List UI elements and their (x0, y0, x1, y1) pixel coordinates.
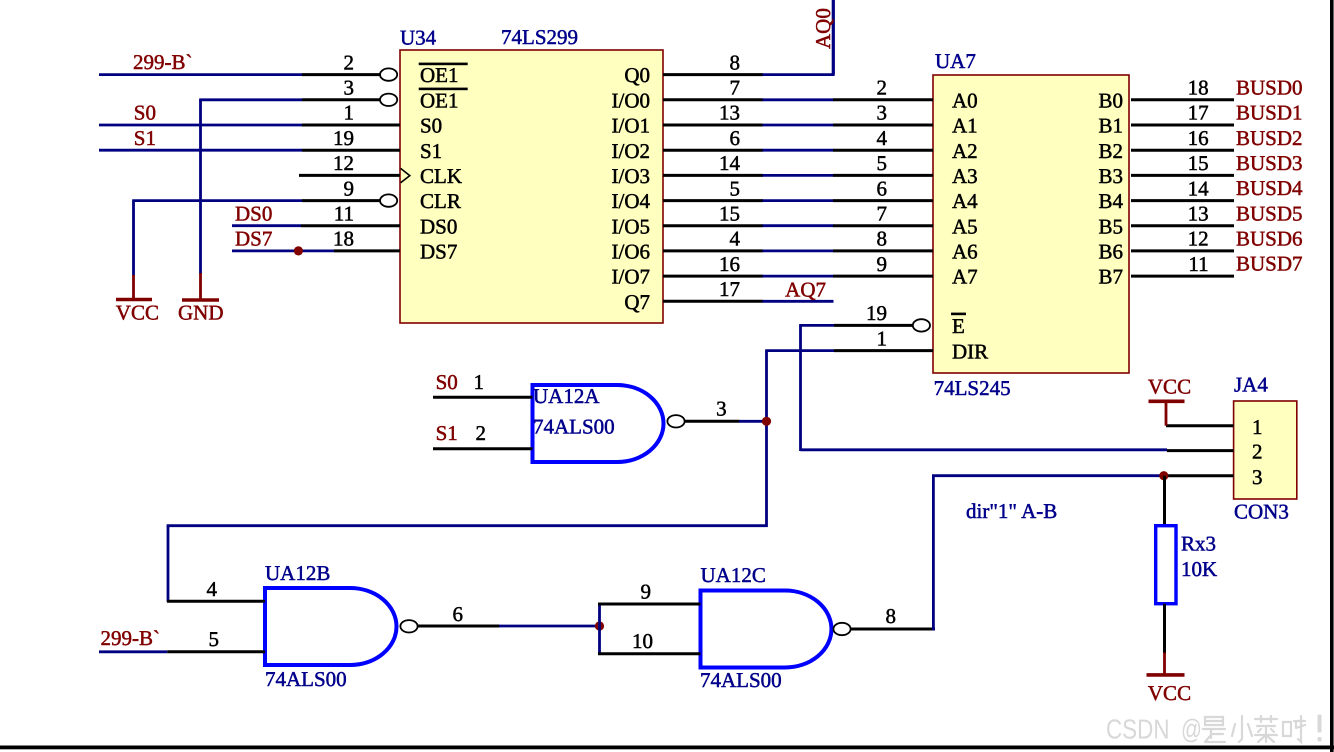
UA7 right pin stub B7 (1131, 275, 1234, 278)
junction dot JA4 pin3 / Rx3 (1159, 471, 1168, 480)
svg-text:UA12B: UA12B (265, 561, 330, 585)
svg-text:3: 3 (1252, 465, 1263, 489)
UA7 left pin stub A5 (833, 224, 933, 227)
svg-text:B2: B2 (1098, 139, 1123, 163)
svg-text:I/O3: I/O3 (612, 164, 651, 188)
svg-text:DS0: DS0 (420, 214, 457, 238)
svg-text:11: 11 (334, 201, 354, 225)
wire U34 to UA7 row 7 (763, 224, 834, 227)
IC UA7 74LS245 body (933, 75, 1129, 373)
svg-text:B4: B4 (1098, 189, 1123, 213)
UA7 right pin stub B3 (1131, 174, 1234, 177)
svg-text:7: 7 (877, 201, 888, 225)
U34 right pin stub row 2 (663, 98, 763, 101)
svg-text:I/O1: I/O1 (612, 114, 651, 138)
svg-text:2: 2 (877, 76, 888, 100)
svg-text:UA7: UA7 (935, 49, 976, 73)
svg-text:19: 19 (333, 126, 354, 150)
svg-text:B5: B5 (1098, 214, 1123, 238)
svg-text:I/O4: I/O4 (612, 189, 651, 213)
vertical wire E net down (799, 325, 802, 451)
UA7 right pin stub B0 (1131, 98, 1234, 101)
svg-text:S0: S0 (436, 370, 458, 394)
svg-text:S1: S1 (436, 421, 458, 445)
UA12B input pin 5 stub (167, 650, 265, 653)
svg-text:GND: GND (178, 301, 224, 325)
svg-text:I/O0: I/O0 (612, 88, 651, 112)
svg-text:5: 5 (730, 176, 741, 200)
svg-text:74LS245: 74LS245 (934, 376, 1011, 400)
svg-text:19: 19 (866, 301, 887, 325)
junction dot UA12A output / DIR net (762, 417, 771, 426)
UA7 left pin stub A2 (833, 149, 933, 152)
svg-text:BUSD2: BUSD2 (1236, 126, 1303, 150)
svg-text:B6: B6 (1098, 240, 1123, 264)
pin 11 stub (DS0) (301, 224, 400, 227)
UA12C output bubble (833, 623, 850, 635)
pin 3 stub (302, 98, 380, 101)
watermark fullwidth exclamation (1318, 715, 1322, 742)
wire junction down to Rx3 (1163, 476, 1166, 526)
U34 right pin stub row 5 (663, 174, 763, 177)
svg-text:1: 1 (1252, 415, 1263, 439)
vertical wire net AQ0 (832, 0, 835, 75)
NAND gate UA12C outline (701, 591, 832, 668)
wire net S1 (99, 149, 302, 152)
connector JA4 body (1234, 401, 1297, 499)
svg-text:A6: A6 (952, 240, 978, 264)
svg-text:14: 14 (1188, 176, 1210, 200)
wire pin6 to UA12C junction (499, 625, 600, 628)
svg-text:AQ0: AQ0 (811, 8, 835, 49)
svg-text:A3: A3 (952, 164, 978, 188)
UA7 left pin stub A1 (833, 124, 933, 127)
svg-text:BUSD6: BUSD6 (1236, 227, 1303, 251)
svg-text:S0: S0 (420, 114, 442, 138)
svg-text:I/O7: I/O7 (612, 265, 651, 289)
svg-text:BUSD5: BUSD5 (1236, 201, 1303, 225)
sheet border right edge (1330, 0, 1334, 752)
wire U34 to UA7 row 9 (763, 275, 834, 278)
sheet border bottom edge (0, 746, 1334, 750)
svg-text:OE1: OE1 (420, 88, 459, 112)
svg-text:74ALS00: 74ALS00 (265, 667, 347, 691)
vertical wire UA12C output up (932, 476, 935, 631)
svg-text:I/O6: I/O6 (612, 240, 651, 264)
svg-text:8: 8 (730, 50, 741, 74)
wire U34 to UA7 row 5 (763, 174, 834, 177)
svg-text:BUSD3: BUSD3 (1236, 151, 1303, 175)
svg-text:74LS299: 74LS299 (501, 25, 578, 49)
svg-text:UA12A: UA12A (533, 384, 600, 408)
watermark CSDN text (1106, 713, 1202, 744)
svg-text:Rx3: Rx3 (1181, 531, 1216, 555)
svg-text:OE1: OE1 (420, 63, 459, 87)
svg-text:16: 16 (1188, 126, 1209, 150)
svg-text:2: 2 (1252, 440, 1263, 464)
resistor Rx3 body (1156, 526, 1176, 604)
U34 right pin stub row 10 (663, 300, 763, 303)
power symbol VCC (left) (116, 275, 152, 300)
svg-text:CSDN: CSDN (1106, 713, 1170, 744)
watermark CJK glyph strokes (1203, 716, 1305, 742)
wire pin3 down to GND symbol (199, 100, 202, 274)
JA4 pin 1 stub (1166, 424, 1234, 427)
svg-text:Q7: Q7 (624, 290, 650, 314)
wire U34 to UA7 row 6 (763, 199, 834, 202)
UA7 E pin overline (951, 313, 966, 316)
svg-text:74ALS00: 74ALS00 (533, 415, 615, 439)
pin 9 inversion bubble (380, 194, 397, 206)
UA12A output pin 3 stub (685, 420, 740, 423)
svg-text:4: 4 (207, 577, 218, 601)
pin 18 stub (DS7) (334, 249, 400, 252)
svg-text:dir"1" A-B: dir"1" A-B (966, 499, 1057, 523)
U34 right pin stub row 3 (663, 124, 763, 127)
svg-text:5: 5 (877, 151, 888, 175)
wire pin3 to GND vertical (199, 98, 302, 101)
vertical wire DIR net down through gate junction (765, 351, 768, 527)
svg-text:CLK: CLK (420, 164, 462, 188)
wire UA12A output to junction (739, 420, 767, 423)
svg-text:4: 4 (730, 227, 741, 251)
junction dot pin6 net (595, 621, 604, 630)
svg-text:15: 15 (719, 201, 740, 225)
svg-text:9: 9 (877, 252, 888, 276)
UA7 left pin stub A0 (833, 98, 933, 101)
svg-text:9: 9 (641, 579, 652, 603)
svg-text:12: 12 (1188, 227, 1209, 251)
svg-text:A5: A5 (952, 214, 978, 238)
pin 19 stub (S1) (302, 149, 400, 152)
svg-text:13: 13 (719, 101, 740, 125)
pin 19 stub (E) (834, 324, 913, 327)
svg-text:299-B`: 299-B` (101, 626, 161, 650)
wire net DS0 (232, 224, 301, 227)
svg-text:S1: S1 (420, 139, 442, 163)
wire CLR to VCC vertical (132, 199, 302, 202)
svg-text:B1: B1 (1098, 114, 1123, 138)
U34 right pin stub row 4 (663, 149, 763, 152)
pin 3 inversion bubble (380, 94, 397, 106)
svg-text:4: 4 (877, 126, 888, 150)
svg-text:B7: B7 (1098, 265, 1123, 289)
UA7 left pin stub A7 (833, 275, 933, 278)
wire net 299-B to pin 5 (99, 650, 167, 653)
wire net 299-B row1 (99, 73, 302, 76)
U34 right pin stub row 1 (663, 73, 763, 76)
svg-text:A4: A4 (952, 189, 978, 213)
svg-text:6: 6 (877, 176, 888, 200)
wire E net to JA4 pin2 (801, 448, 1168, 451)
UA7 left pin stub A6 (833, 249, 933, 252)
UA7 right pin stub B1 (1131, 124, 1234, 127)
wire U34 to UA7 row 4 (763, 149, 834, 152)
UA7 right pin stub B2 (1131, 149, 1234, 152)
svg-text:1: 1 (877, 327, 888, 351)
NAND gate UA12A outline (533, 385, 664, 462)
pin 12 stub (CLK) (299, 174, 400, 177)
wire Rx3 down to VCC (1163, 604, 1166, 654)
long horizontal wire to UA12B pin4 (167, 524, 768, 527)
pin 19 inversion bubble (913, 319, 930, 331)
svg-text:CON3: CON3 (1234, 499, 1289, 523)
vertical wire down to UA12B pin4 (167, 526, 170, 602)
svg-text:JA4: JA4 (1234, 373, 1268, 397)
U34 right pin stub row 8 (663, 249, 763, 252)
wire E to vertical (799, 324, 834, 327)
UA12C input pin 10 stub (598, 652, 701, 655)
pin 2 stub (302, 73, 380, 76)
svg-text:3: 3 (716, 397, 727, 421)
svg-text:18: 18 (333, 227, 354, 251)
svg-text:9: 9 (344, 176, 355, 200)
svg-text:14: 14 (719, 151, 741, 175)
svg-text:8: 8 (877, 227, 888, 251)
UA12C output pin 8 stub (851, 628, 935, 631)
svg-text:6: 6 (453, 602, 464, 626)
UA12A output bubble (667, 415, 684, 427)
UA12B output bubble (400, 620, 417, 632)
svg-text:7: 7 (730, 76, 741, 100)
svg-text:@: @ (1181, 713, 1202, 744)
svg-text:E: E (952, 314, 965, 338)
svg-text:BUSD4: BUSD4 (1236, 176, 1303, 200)
svg-text:3: 3 (344, 76, 355, 100)
svg-text:AQ7: AQ7 (785, 277, 826, 301)
wire net S0 (99, 124, 302, 127)
junction dot on DS7 wire (294, 246, 303, 255)
UA7 left pin stub A3 (833, 174, 933, 177)
svg-text:DIR: DIR (952, 340, 988, 364)
pin 1 stub (DIR) (834, 349, 933, 352)
svg-text:A7: A7 (952, 265, 978, 289)
NAND gate UA12B outline (265, 588, 397, 665)
wire U34 to UA7 row 2 (763, 98, 834, 101)
U34 CLK triangle marker (401, 168, 410, 182)
svg-text:16: 16 (719, 252, 740, 276)
svg-text:Q0: Q0 (624, 63, 650, 87)
JA4 pin 3 stub (1164, 474, 1234, 477)
svg-text:A1: A1 (952, 114, 978, 138)
svg-text:10: 10 (632, 629, 653, 653)
wire to JA4 pin3 junction (932, 474, 1164, 477)
wire Q7 net AQ7 (763, 300, 834, 303)
svg-text:A2: A2 (952, 139, 978, 163)
svg-text:I/O5: I/O5 (612, 214, 651, 238)
power symbol GND (182, 273, 219, 300)
UA12B input pin 4 stub (167, 600, 265, 603)
JA4 pin 2 stub (1167, 449, 1234, 452)
svg-text:12: 12 (333, 151, 354, 175)
svg-text:DS7: DS7 (235, 227, 272, 251)
svg-text:A0: A0 (952, 88, 978, 112)
svg-text:VCC: VCC (1148, 681, 1191, 705)
pin 9 stub (CLR) (302, 199, 380, 202)
svg-text:I/O2: I/O2 (612, 139, 651, 163)
UA12A input pin 1 stub (433, 396, 533, 399)
pin 1 stub (S0) (302, 124, 400, 127)
svg-text:17: 17 (1188, 101, 1209, 125)
UA7 right pin stub B4 (1131, 199, 1234, 202)
UA12A input pin 2 stub (433, 447, 533, 450)
UA7 left pin stub A4 (833, 199, 933, 202)
UA7 right pin stub B5 (1131, 224, 1234, 227)
svg-text:B0: B0 (1098, 88, 1123, 112)
UA7 right pin stub B6 (1131, 249, 1234, 252)
svg-text:5: 5 (209, 627, 220, 651)
vertical wire joining UA12C inputs (598, 604, 601, 654)
svg-text:6: 6 (730, 126, 741, 150)
svg-text:VCC: VCC (1148, 374, 1191, 398)
U34 OE1 pin2 overline (419, 63, 468, 66)
svg-text:UA12C: UA12C (701, 563, 766, 587)
svg-text:299-B`: 299-B` (133, 50, 193, 74)
svg-text:BUSD7: BUSD7 (1236, 252, 1303, 276)
U34 right pin stub row 9 (663, 275, 763, 278)
wire Q0 to AQ0 corner (763, 73, 835, 76)
svg-text:S0: S0 (134, 101, 156, 125)
svg-text:1: 1 (474, 370, 485, 394)
power symbol VCC (upper right) (1149, 401, 1185, 425)
UA12C input pin 9 stub (598, 603, 701, 606)
power symbol VCC (bottom) (1147, 653, 1185, 675)
U34 right pin stub row 7 (663, 224, 763, 227)
svg-text:3: 3 (877, 101, 888, 125)
wire net DS7 (232, 249, 334, 252)
svg-text:S1: S1 (134, 126, 156, 150)
wire U34 to UA7 row 8 (763, 249, 834, 252)
UA12B output pin 6 stub (418, 625, 500, 628)
svg-text:BUSD0: BUSD0 (1236, 75, 1303, 99)
svg-text:8: 8 (886, 604, 897, 628)
svg-text:15: 15 (1188, 151, 1209, 175)
svg-text:74ALS00: 74ALS00 (700, 668, 782, 692)
IC U34 74LS299 body (400, 50, 663, 323)
svg-text:10K: 10K (1181, 557, 1217, 581)
wire down to VCC symbol (132, 201, 135, 276)
svg-text:11: 11 (1188, 252, 1208, 276)
svg-text:U34: U34 (400, 26, 437, 50)
svg-text:1: 1 (344, 101, 355, 125)
svg-text:2: 2 (476, 421, 487, 445)
wire DIR to vertical (765, 349, 834, 352)
pin 2 inversion bubble (380, 68, 397, 80)
svg-text:BUSD1: BUSD1 (1236, 101, 1303, 125)
svg-text:17: 17 (719, 277, 740, 301)
svg-text:VCC: VCC (116, 301, 159, 325)
svg-text:CLR: CLR (420, 189, 461, 213)
svg-text:B3: B3 (1098, 164, 1123, 188)
wire U34 to UA7 row 3 (763, 124, 834, 127)
svg-text:2: 2 (344, 50, 355, 74)
U34 right pin stub row 6 (663, 199, 763, 202)
U34 OE1 pin3 overline (419, 88, 468, 91)
svg-text:13: 13 (1188, 201, 1209, 225)
svg-text:18: 18 (1188, 76, 1209, 100)
svg-text:DS7: DS7 (420, 240, 457, 264)
svg-text:DS0: DS0 (235, 201, 272, 225)
